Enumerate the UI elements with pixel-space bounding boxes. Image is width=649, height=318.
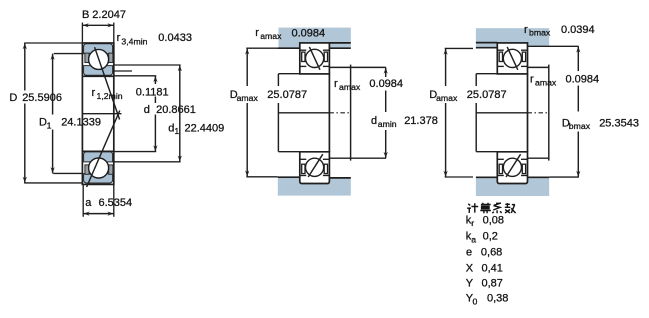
- view3 shaft shoulder face: [548, 65, 550, 161]
- svg-text:20.8661: 20.8661: [156, 104, 196, 116]
- view2 contact line (top box): [309, 47, 320, 70]
- view1 contact line A (through top ball): [95, 47, 120, 119]
- view1 centreline: [83, 113, 122, 115]
- dimension D extension line top: [24, 42, 82, 44]
- svg-text:1: 1: [174, 126, 179, 136]
- dimension Da (view2) extension bottom: [246, 176, 277, 178]
- svg-text:0.0433: 0.0433: [158, 32, 192, 44]
- view3 cage bars (bottom box): [499, 164, 502, 173]
- view1 bearing inner ring top section: [84, 66, 113, 76]
- dimension d extension line top: [114, 75, 156, 77]
- svg-text:0.0984: 0.0984: [369, 78, 403, 90]
- view3 housing band top: [476, 28, 549, 48]
- svg-text:0.0394: 0.0394: [561, 24, 595, 36]
- view3 housing bore stub left: [476, 42, 497, 44]
- view2 housing shoulder edge top: [278, 47, 300, 49]
- dimension a extension lines: [82, 184, 84, 216]
- view3 ball (top box): [503, 49, 521, 67]
- dimension D1 extension line top: [54, 53, 83, 55]
- svg-text:r: r: [92, 87, 96, 99]
- view2 shaft seat edge bottom band: [278, 176, 300, 178]
- svg-text:B: B: [82, 9, 89, 21]
- view2 contact line (bottom box): [308, 154, 323, 177]
- dimension d1 extension line top: [114, 64, 181, 66]
- view3 shaft shoulder line top: [528, 66, 550, 68]
- svg-text:r: r: [117, 32, 121, 44]
- shoulder stub line: [114, 70, 132, 72]
- svg-text:24.1339: 24.1339: [61, 117, 101, 129]
- view3 raceway lines (top box): [497, 49, 504, 51]
- view2 ball (bottom box): [306, 158, 324, 176]
- svg-text:25.3543: 25.3543: [599, 117, 639, 129]
- svg-text:22.4409: 22.4409: [185, 122, 225, 134]
- dimension D1 extension line bottom: [53, 172, 83, 174]
- view1 cage bar right (bottom section): [109, 165, 113, 174]
- svg-text:0,38: 0,38: [487, 293, 508, 305]
- view3 shaft shoulder line bottom: [528, 157, 550, 159]
- view2 shaft shoulder line top: [329, 66, 386, 68]
- svg-text:a: a: [471, 235, 476, 245]
- view2 centreline: [278, 112, 329, 114]
- dimension B extension lines: [81, 23, 83, 44]
- view1 bearing inner ring bottom section: [84, 152, 113, 162]
- svg-text:X: X: [466, 262, 474, 274]
- dimension Da (view2) line with arrows: [246, 48, 248, 86]
- view3 bearing white boxes: [497, 43, 527, 74]
- dimension d1 line with arrows: [179, 65, 181, 162]
- view3 housing shoulder edge top left: [476, 47, 497, 49]
- svg-text:e: e: [466, 247, 472, 259]
- view3 cage bars (top box): [499, 52, 502, 61]
- dimension d extension line bottom: [114, 151, 156, 153]
- view2 raceway lines (top box): [300, 49, 307, 51]
- view2 housing band bottom: [278, 177, 351, 195]
- view2 ball (top box): [306, 49, 324, 67]
- svg-text:r: r: [255, 27, 259, 39]
- view2 bottom box outline: [300, 152, 330, 184]
- view3 centreline: [476, 112, 527, 114]
- svg-text:amax: amax: [237, 93, 259, 103]
- view3 ball (bottom box): [503, 158, 521, 176]
- view1 cage bar left (bottom section): [85, 165, 89, 174]
- dimension Da (view3) extension bottom: [445, 176, 473, 178]
- dimension Da (view2) extension top: [246, 47, 278, 49]
- dimension D extension line bottom: [24, 182, 83, 184]
- svg-text:0.0984: 0.0984: [292, 27, 326, 39]
- dimension Db extension bottom: [549, 176, 579, 178]
- svg-text:r: r: [530, 74, 534, 86]
- svg-text:r: r: [334, 78, 338, 90]
- svg-text:d: d: [371, 115, 377, 127]
- view1 section face line top: [82, 75, 113, 77]
- dimension D1 line with arrows: [52, 54, 54, 115]
- dimension Db max (view3) line with arrows: [577, 46, 579, 71]
- svg-text:D: D: [9, 92, 17, 104]
- view3 housing band bottom: [476, 177, 549, 196]
- svg-text:0: 0: [473, 296, 478, 306]
- view3 shaft seat stubs: [476, 73, 497, 75]
- svg-text:amax: amax: [260, 31, 282, 41]
- svg-text:a: a: [85, 197, 92, 209]
- svg-text:0.0984: 0.0984: [566, 74, 600, 86]
- dimension Da (view3) line with arrows: [445, 48, 447, 86]
- svg-text:amin: amin: [378, 119, 397, 129]
- view3 contact line (bottom box): [506, 154, 521, 177]
- view2 bearing right edge through middle: [328, 74, 330, 152]
- table header (CJK: calculation factors) drawn strokes: [467, 203, 516, 214]
- svg-text:25.0787: 25.0787: [467, 89, 507, 101]
- view1 ball (top section): [89, 49, 109, 69]
- svg-text:1: 1: [47, 120, 52, 130]
- view1 ball (bottom section): [89, 158, 109, 178]
- view2 cage bars (top box): [302, 52, 305, 61]
- svg-text:0,87: 0,87: [482, 278, 503, 290]
- view1 bearing outline box: [82, 43, 113, 184]
- view1 bearing outer ring top (left view): [84, 44, 113, 54]
- view2 bearing white boxes: [300, 43, 330, 74]
- view3 top box outline: [497, 43, 527, 74]
- view2 housing bore line right of box: [329, 42, 350, 44]
- svg-text:d: d: [144, 104, 150, 116]
- svg-text:25.5906: 25.5906: [22, 92, 62, 104]
- view2 housing band top: [279, 28, 351, 49]
- view3 bottom box outline: [497, 152, 527, 184]
- dimension B line with arrows: [82, 24, 113, 26]
- svg-text:0,08: 0,08: [483, 214, 504, 226]
- view2 raceway lines (bottom box): [300, 158, 307, 160]
- view1 cage bar right (top section): [109, 53, 113, 62]
- svg-text:0,2: 0,2: [483, 231, 498, 243]
- view3 bearing right edge through middle: [527, 74, 529, 152]
- dimension Da (view3) extension top: [445, 47, 473, 49]
- view2 shaft shoulder line bottom: [329, 157, 386, 159]
- view3 shaft end face: [475, 74, 477, 86]
- dimension d1 extension line bottom: [114, 161, 181, 163]
- svg-text:amax: amax: [436, 93, 458, 103]
- dimension D line with arrows: [24, 43, 26, 91]
- view1 cage bar left (top section): [85, 53, 89, 62]
- dimension d line with arrows: [154, 76, 156, 84]
- view3 raceway lines (bottom box): [497, 158, 504, 160]
- view1 contact line B (through bottom ball): [87, 111, 120, 188]
- view2 shaft seat stubs: [278, 73, 299, 75]
- svg-text:2.2047: 2.2047: [92, 9, 126, 21]
- svg-text:1,2min: 1,2min: [97, 91, 123, 101]
- view2 shaft end face: [277, 74, 279, 86]
- view3 housing recess line right: [528, 45, 579, 47]
- svg-text:bmax: bmax: [569, 121, 591, 131]
- view1 bearing outer ring bottom section: [84, 174, 113, 183]
- svg-text:0,41: 0,41: [482, 262, 503, 274]
- svg-text:0,68: 0,68: [481, 247, 502, 259]
- svg-text:0.1181: 0.1181: [136, 86, 169, 98]
- view3 contact line (top box): [507, 47, 518, 70]
- svg-text:25.0787: 25.0787: [267, 89, 307, 101]
- dimension a line with arrows: [83, 213, 114, 215]
- svg-text:r: r: [471, 218, 474, 228]
- svg-text:r: r: [524, 24, 528, 36]
- view2 cage bars (bottom box): [302, 164, 305, 173]
- svg-text:Y: Y: [466, 278, 474, 290]
- svg-text:6.5354: 6.5354: [99, 197, 133, 209]
- svg-text:amax: amax: [339, 82, 361, 92]
- view3 shaft seat edge bottom band: [476, 176, 497, 178]
- view2 top box outline: [300, 43, 330, 74]
- view1 section face line bottom: [82, 150, 113, 152]
- svg-text:3,4min: 3,4min: [121, 36, 147, 46]
- view2 shaft shoulder face: [350, 65, 352, 161]
- svg-text:amax: amax: [535, 77, 557, 87]
- svg-text:21.378: 21.378: [404, 115, 438, 127]
- svg-text:bmax: bmax: [529, 28, 551, 38]
- dimension da min (view2) line with arrows: [385, 67, 387, 77]
